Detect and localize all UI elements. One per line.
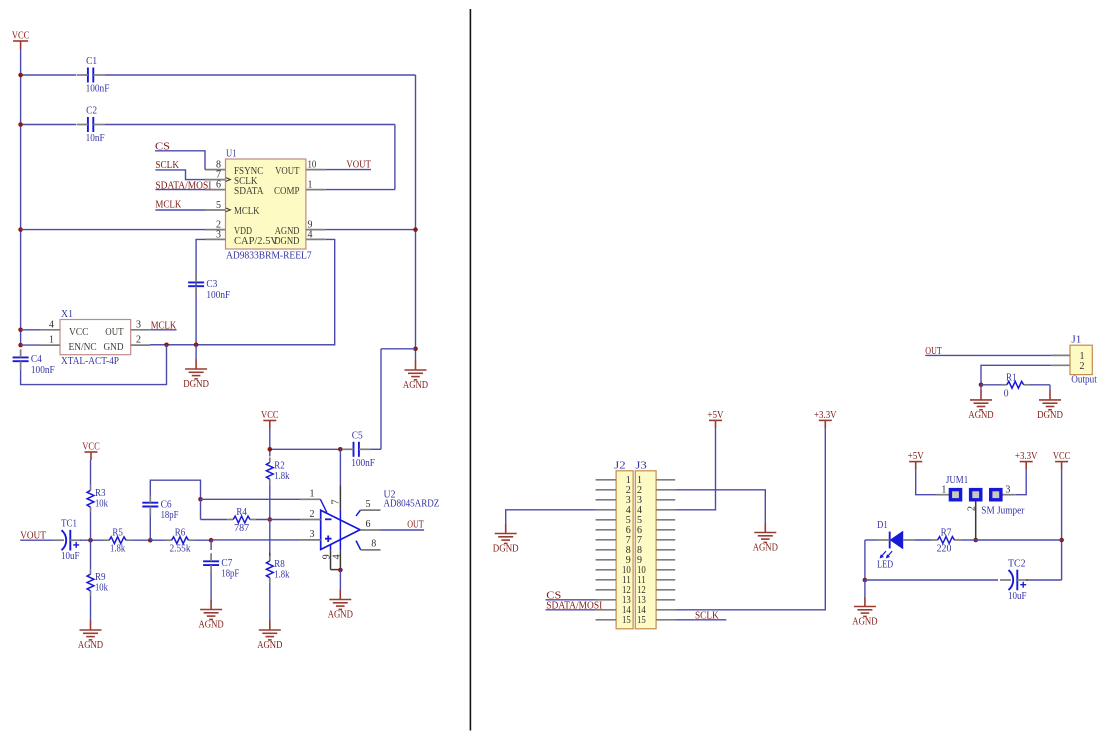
- junction X1 gnd net A: [164, 343, 169, 348]
- resistor R7: [932, 527, 961, 555]
- wire AGND branch to C5 drop: [381, 348, 416, 350]
- svg-text:+5V: +5V: [908, 450, 924, 462]
- svg-text:4: 4: [308, 229, 313, 240]
- pin J3 pin 14: [656, 609, 675, 611]
- wire C1 net left: [21, 74, 76, 76]
- svg-text:10nF: 10nF: [86, 132, 105, 144]
- ground AGND under U2: [329, 590, 351, 609]
- power +3.3V J3: [819, 420, 832, 428]
- ground AGND under J1: [970, 390, 992, 409]
- ground AGND under C7: [200, 600, 222, 619]
- wire opamp gnd wire: [339, 570, 341, 590]
- pin U2 pin 6: [360, 529, 380, 531]
- svg-text:AGND: AGND: [257, 639, 282, 651]
- pin D1 anode lead: [903, 539, 915, 541]
- wire pin4 route down-left: [150, 239, 335, 344]
- crystal X1 body: [60, 320, 131, 355]
- wire LED left wire: [865, 539, 877, 541]
- U1 clock chevron pin 7: [226, 178, 231, 182]
- pin J3 pin 10: [656, 569, 675, 571]
- junction VCC-C5 row: [268, 447, 273, 452]
- wire C7 node down: [210, 540, 212, 550]
- jumper JUM1 pads: [949, 488, 1003, 502]
- svg-text:VCC: VCC: [261, 409, 279, 421]
- svg-text:AGND: AGND: [403, 379, 428, 391]
- svg-text:100nF: 100nF: [206, 289, 230, 301]
- wire C5 drop vertical: [380, 349, 382, 450]
- wire J3 pin2 to AGND: [675, 490, 765, 523]
- pin J2 pin 2: [596, 489, 617, 491]
- op-amp U2 plus: [325, 536, 332, 543]
- svg-text:AGND: AGND: [753, 542, 778, 554]
- svg-text:18pF: 18pF: [221, 568, 239, 580]
- pin 8 U2: [356, 541, 361, 550]
- pin J2 pin 12: [596, 589, 617, 591]
- wire C1 net right: [105, 74, 416, 76]
- pin U1 pin 1: [306, 189, 326, 191]
- wire R4 drop: [200, 499, 202, 519]
- junction C6 node: [148, 538, 153, 543]
- wire SDATA to pin6: [155, 189, 205, 191]
- wire C2 to COMP vertical: [394, 125, 396, 190]
- svg-text:J1: J1: [1071, 334, 1081, 346]
- wire R6 to C7 node: [194, 539, 211, 541]
- wire C2 net left: [21, 124, 76, 126]
- svg-text:3: 3: [1005, 485, 1010, 496]
- svg-text:R5: R5: [112, 527, 123, 539]
- svg-text:AGND: AGND: [78, 639, 103, 651]
- wire X1 pin4 to rail: [21, 329, 40, 331]
- pin J2 pin 6: [596, 529, 617, 531]
- svg-text:100nF: 100nF: [351, 457, 375, 469]
- svg-text:3: 3: [136, 319, 141, 330]
- wire VCC down: [1061, 470, 1063, 580]
- svg-text:3: 3: [310, 529, 315, 540]
- pin J3 pin 3: [656, 499, 675, 501]
- pin X1 pin 1: [40, 344, 61, 346]
- ground AGND under J3: [754, 523, 776, 542]
- svg-text:DGND: DGND: [274, 235, 299, 247]
- diode D1 (LED): [877, 519, 903, 571]
- power VCC opamp: [263, 421, 276, 429]
- svg-text:4: 4: [331, 554, 342, 559]
- wire pin7 wire blue: [339, 449, 341, 485]
- svg-text:15: 15: [637, 615, 646, 626]
- svg-text:5: 5: [216, 200, 221, 211]
- pin JUM1 pin 3: [1002, 494, 1016, 496]
- svg-text:VCC: VCC: [69, 326, 88, 338]
- wire VCC to C5 row: [269, 429, 271, 457]
- svg-text:1.8k: 1.8k: [274, 568, 290, 580]
- pin D1 cathode lead: [877, 539, 890, 541]
- svg-text:10k: 10k: [95, 498, 108, 510]
- pin U1 pin 8: [205, 169, 226, 171]
- junction pins 9-4 node: [338, 568, 343, 573]
- junction C7 node: [209, 538, 214, 543]
- junction X1 gnd net B: [194, 343, 199, 348]
- resistor R8: [266, 556, 289, 583]
- power VCC R3: [85, 452, 98, 460]
- svg-text:787: 787: [234, 522, 249, 534]
- wire R3 to node: [90, 512, 92, 540]
- svg-text:100nF: 100nF: [31, 364, 55, 376]
- pin J3 pin 7: [656, 539, 675, 541]
- wire LED left down: [864, 540, 866, 580]
- svg-text:7: 7: [331, 500, 342, 505]
- pin J2 pin 8: [596, 549, 617, 551]
- wire R8 top pin: [269, 553, 271, 562]
- pin 1 U2: [301, 498, 321, 500]
- junction R2-pin2 row: [268, 517, 273, 522]
- wire node to R9: [90, 540, 92, 569]
- ground DGND under J1: [1039, 390, 1061, 409]
- pin J2 pin 4: [596, 509, 617, 511]
- svg-text:VCC: VCC: [12, 30, 30, 42]
- power +5V J3: [709, 420, 722, 428]
- junction pin7-C5 row: [338, 447, 343, 452]
- wire pin3 wire: [211, 539, 301, 541]
- svg-text:JUM1: JUM1: [946, 474, 968, 486]
- svg-text:AD8045ARDZ: AD8045ARDZ: [384, 497, 440, 509]
- resistor R4: [227, 506, 256, 534]
- svg-text:1: 1: [49, 335, 54, 346]
- wire +5V to pad1: [916, 470, 936, 495]
- svg-text:LED: LED: [877, 559, 893, 571]
- svg-text:CAP/2.5V: CAP/2.5V: [234, 235, 278, 247]
- pin J1 pin 2: [1051, 364, 1070, 366]
- wire R4 left lead: [201, 519, 228, 521]
- svg-text:XTAL-ACT-4P: XTAL-ACT-4P: [61, 355, 119, 367]
- svg-text:R6: R6: [175, 527, 186, 539]
- svg-text:4: 4: [49, 319, 54, 330]
- svg-text:6: 6: [216, 180, 221, 191]
- wire C4 bottom loop: [21, 345, 167, 385]
- wire +3.3V to pad3: [1016, 470, 1026, 495]
- ground AGND right of U1: [405, 361, 427, 380]
- svg-text:COMP: COMP: [274, 185, 300, 197]
- svg-text:3: 3: [216, 229, 221, 240]
- pin U1 pin 6: [205, 189, 226, 191]
- wire C7 to AGND: [210, 573, 212, 601]
- wire C1 vertical to AGND: [415, 75, 417, 349]
- pin J2 pin 13: [596, 599, 617, 601]
- svg-text:1.8k: 1.8k: [274, 470, 290, 482]
- svg-text:D1: D1: [877, 519, 888, 531]
- wire TC2 row right: [1026, 579, 1062, 581]
- ground AGND under R9: [80, 621, 102, 640]
- power +3.3V jumper: [1020, 462, 1033, 470]
- capacitor C7: [203, 553, 239, 580]
- IC U1 body (AD9833): [226, 159, 306, 249]
- resistor R9: [87, 569, 108, 596]
- junction VCC row node: [1059, 538, 1064, 543]
- wire CS to pin8: [155, 151, 205, 170]
- svg-text:J2: J2: [614, 459, 625, 471]
- wire C5 row left: [270, 448, 342, 450]
- pin J2 pin 1: [596, 479, 617, 481]
- capacitor TC1 (polarized): [53, 518, 81, 563]
- svg-text:10: 10: [308, 160, 317, 171]
- pin J2 pin 10: [596, 569, 617, 571]
- svg-text:C1: C1: [86, 55, 97, 67]
- wire SDATA wire J2: [546, 609, 596, 611]
- wire AGND J1 stub: [980, 385, 982, 391]
- wire R5 to C6 node: [132, 539, 150, 541]
- junction pin9-C1 vertical: [413, 227, 418, 232]
- svg-text:Output: Output: [1071, 374, 1097, 386]
- pin J2 pin 3: [596, 499, 617, 501]
- wire to AGND right of U1: [415, 349, 417, 361]
- svg-text:VOUT: VOUT: [346, 159, 371, 171]
- wire SCLK to pin7: [155, 170, 205, 180]
- svg-text:VCC: VCC: [1053, 450, 1071, 462]
- wire pin3 to C3: [196, 239, 205, 345]
- wire R2 bottom to R8: [269, 520, 271, 553]
- junction rail-X1pin1: [18, 343, 23, 348]
- svg-text:AGND: AGND: [852, 616, 877, 628]
- pin J2 pin 7: [596, 539, 617, 541]
- pin J3 pin 11: [656, 579, 675, 581]
- wire CS wire J2: [546, 599, 596, 601]
- svg-text:MCLK: MCLK: [234, 205, 260, 217]
- wire MCLK to pin5: [155, 209, 205, 211]
- pin X1 pin 2: [131, 344, 151, 346]
- wire to DGND left: [195, 345, 197, 360]
- power +5V jumper: [909, 462, 922, 470]
- pin JUM1 pin 1: [936, 494, 949, 496]
- wire C6 node up: [149, 514, 151, 540]
- wire pin1 wire: [201, 498, 301, 500]
- wire C5 row right: [370, 448, 381, 450]
- svg-text:DGND: DGND: [183, 378, 209, 390]
- wire +5V down to J3 pin4: [675, 428, 715, 509]
- pin J3 pin 2: [656, 489, 675, 491]
- pin U2 pin 3: [301, 539, 321, 541]
- capacitor C3: [188, 274, 230, 301]
- svg-text:8: 8: [371, 539, 376, 550]
- svg-text:OUT: OUT: [105, 326, 123, 338]
- svg-text:GND: GND: [104, 341, 124, 353]
- svg-text:C5: C5: [352, 429, 363, 441]
- page divider line: [469, 9, 471, 731]
- wire R1 right down: [1049, 385, 1051, 391]
- connector J2 body: [616, 471, 633, 629]
- pin U1 pin 4: [306, 238, 326, 240]
- capacitor C4: [13, 349, 55, 376]
- svg-text:18pF: 18pF: [161, 509, 179, 521]
- pin J2 pin 14: [596, 609, 617, 611]
- wire OUT wire: [381, 529, 425, 531]
- svg-text:+3.3V: +3.3V: [1015, 450, 1038, 462]
- wire R1 right lead: [1030, 384, 1050, 386]
- svg-text:220: 220: [937, 543, 952, 555]
- wire R4 right lead: [256, 519, 301, 521]
- svg-text:TC2: TC2: [1008, 558, 1026, 570]
- wire TC1 to node: [80, 539, 104, 541]
- junction AGND node: [413, 347, 418, 352]
- svg-text:OUT: OUT: [407, 519, 424, 531]
- pin U1 pin 2: [205, 229, 226, 231]
- svg-text:2: 2: [1080, 361, 1085, 372]
- wire SCLK wire J3: [675, 619, 726, 621]
- svg-text:1: 1: [941, 485, 946, 496]
- wire LED to R7 wire: [915, 539, 932, 541]
- svg-text:R7: R7: [941, 527, 952, 539]
- wire R7 to node wire: [960, 539, 975, 541]
- svg-text:100nF: 100nF: [86, 83, 110, 95]
- svg-text:+3.3V: +3.3V: [814, 409, 837, 421]
- wire LED row right: [976, 539, 1062, 541]
- wire LED AGND stub: [864, 580, 866, 597]
- wire X1 pin2 net: [150, 344, 335, 346]
- wire TC2 row left: [865, 579, 998, 581]
- wire VDD rail to pin2: [21, 229, 205, 231]
- svg-text:1.8k: 1.8k: [110, 543, 126, 555]
- svg-text:AGND: AGND: [328, 609, 353, 621]
- wire R8 to AGND blue: [269, 583, 271, 621]
- wire R2 to pin2 row: [269, 484, 271, 519]
- junction rail-C2: [18, 122, 23, 127]
- op-amp U2 triangle: [321, 510, 360, 549]
- svg-text:X1: X1: [61, 308, 73, 320]
- junction pin1 node: [198, 497, 203, 502]
- wire X1 pin1 to rail: [21, 344, 40, 346]
- pin U1 pin 5: [205, 209, 226, 211]
- pin J2 pin 5: [596, 519, 617, 521]
- svg-text:VOUT: VOUT: [275, 165, 300, 177]
- svg-text:1: 1: [308, 180, 313, 191]
- pin J3 pin 13: [656, 599, 675, 601]
- wire VCC to R3: [90, 460, 92, 485]
- pin U1 pin 7: [205, 179, 226, 181]
- svg-text:10uF: 10uF: [1008, 590, 1027, 602]
- pin 5 U2: [356, 510, 361, 516]
- junction jumper node: [973, 538, 978, 543]
- wire +3.3V down to J3 pin14: [675, 428, 825, 609]
- wire node to R6: [150, 539, 165, 541]
- svg-text:VCC: VCC: [82, 441, 100, 453]
- svg-text:AGND: AGND: [968, 409, 993, 421]
- pin J3 pin 1: [656, 479, 675, 481]
- svg-text:2: 2: [310, 509, 315, 520]
- junction rail-VDD: [18, 227, 23, 232]
- ground DGND left: [185, 360, 207, 379]
- ground AGND under R8: [259, 621, 281, 640]
- pin J3 pin 6: [656, 529, 675, 531]
- junction TC2 left node: [863, 578, 868, 583]
- svg-text:2.55k: 2.55k: [170, 543, 191, 555]
- svg-text:MCLK: MCLK: [155, 198, 181, 210]
- wire X1 pin3 net MCLK: [150, 329, 176, 331]
- ground AGND under LED: [854, 597, 876, 616]
- connector J1 body: [1070, 345, 1092, 374]
- pin J2 pin 9: [596, 559, 617, 561]
- pin J3 pin 15: [656, 619, 675, 621]
- svg-text:15: 15: [622, 615, 631, 626]
- svg-text:SCLK: SCLK: [155, 159, 179, 171]
- svg-text:1: 1: [310, 489, 315, 500]
- resistor R6: [166, 527, 195, 555]
- pin J2 pin 11: [596, 579, 617, 581]
- capacitor TC2 (polarized): [1000, 558, 1028, 603]
- svg-text:C2: C2: [86, 105, 97, 117]
- svg-text:U1: U1: [226, 148, 237, 160]
- junction rail-X1pin4: [18, 328, 23, 333]
- svg-text:DGND: DGND: [493, 543, 519, 555]
- svg-text:AD9833BRM-REEL7: AD9833BRM-REEL7: [226, 250, 312, 262]
- svg-text:5: 5: [366, 499, 371, 510]
- wire pin7 inner blue: [339, 509, 341, 550]
- wire pin9 net: [326, 229, 416, 231]
- svg-text:AGND: AGND: [199, 619, 224, 631]
- svg-text:TC1: TC1: [61, 518, 77, 530]
- svg-text:10uF: 10uF: [61, 550, 80, 562]
- capacitor C5: [342, 429, 375, 469]
- wire C2 net right: [105, 124, 395, 126]
- pin J3 pin 12: [656, 589, 675, 591]
- svg-text:R4: R4: [236, 506, 247, 518]
- pin J1 pin 1: [1051, 354, 1070, 356]
- junction R1 left node: [979, 383, 984, 388]
- resistor R1: [1001, 371, 1030, 399]
- pin J3 pin 4: [656, 509, 675, 511]
- ground DGND under J2: [495, 524, 517, 543]
- pin J2 pin 15: [596, 619, 617, 621]
- wire OUT to J1 pin1: [925, 354, 1051, 356]
- junction bias node: [88, 538, 93, 543]
- svg-text:6: 6: [366, 519, 371, 530]
- pin J3 pin 5: [656, 519, 675, 521]
- op-amp U2 minus: [325, 518, 332, 520]
- svg-text:DGND: DGND: [1037, 409, 1063, 421]
- power VCC right: [1055, 462, 1068, 470]
- pin U2 pin 2: [301, 519, 321, 521]
- svg-text:EN/NC: EN/NC: [69, 341, 97, 353]
- svg-text:+5V: +5V: [707, 409, 723, 421]
- pin J3 pin 9: [656, 559, 675, 561]
- svg-text:2: 2: [136, 335, 141, 346]
- pin J3 pin 8: [656, 549, 675, 551]
- svg-text:0: 0: [1004, 387, 1009, 399]
- resistor R3: [87, 485, 108, 512]
- resistor R5: [103, 527, 132, 555]
- pin 9 U2: [330, 545, 332, 551]
- junction rail-C1: [18, 73, 23, 78]
- capacitor C1: [77, 55, 110, 95]
- svg-text:SM Jumper: SM Jumper: [981, 504, 1024, 516]
- wire R9 to AGND: [90, 596, 92, 621]
- power VCC top-left: [13, 41, 28, 49]
- pin X1 pin 4: [40, 329, 61, 331]
- wire R1 left lead: [981, 384, 1001, 386]
- wire J2 pin4 to DGND: [506, 510, 596, 524]
- svg-text:J3: J3: [635, 459, 647, 471]
- wire pin10 net: [326, 169, 371, 171]
- svg-text:R1: R1: [1006, 371, 1017, 383]
- wire COMP net: [326, 189, 395, 191]
- resistor R2: [266, 457, 289, 484]
- pin U1 pin 9: [306, 229, 326, 231]
- pin U1 pin 10: [306, 169, 326, 171]
- wire C6 top loop: [150, 480, 200, 499]
- connector J3 body: [635, 471, 656, 629]
- wire VOUT lead: [20, 539, 54, 541]
- pin JUM1 2 stem: [975, 502, 977, 541]
- capacitor C6: [142, 495, 178, 521]
- svg-text:SDATA: SDATA: [234, 185, 264, 197]
- svg-text:10k: 10k: [95, 582, 108, 594]
- pin X1 pin 3: [131, 329, 151, 331]
